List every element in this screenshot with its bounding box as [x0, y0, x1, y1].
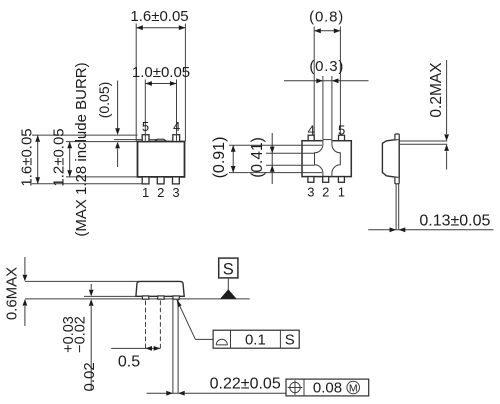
svg-text:0.5: 0.5 — [118, 353, 140, 370]
top view pin 3 — [173, 177, 180, 184]
svg-text:(0.91): (0.91) — [211, 137, 228, 179]
dimension 1.6±0.05 top width — [130, 8, 188, 141]
dimension 1.6±0.05 overall height — [19, 128, 41, 186]
bottom view pin labels 4 5 3 2 1 — [307, 123, 345, 200]
svg-text:(0.3): (0.3) — [309, 58, 344, 75]
svg-text:0.08: 0.08 — [313, 380, 342, 397]
bottom view pin 5 — [339, 135, 345, 141]
bottom view center pad — [315, 139, 341, 177]
svg-text:0.22±0.05: 0.22±0.05 — [210, 376, 281, 393]
bottom view pin 4 — [308, 135, 314, 141]
svg-text:1.6±0.05: 1.6±0.05 — [130, 8, 188, 25]
svg-text:(0.05): (0.05) — [96, 82, 112, 119]
svg-text:1.2±0.05: 1.2±0.05 — [51, 128, 68, 186]
front view package body — [136, 281, 184, 296]
top view pin 5 — [142, 135, 149, 142]
side view body — [382, 139, 399, 177]
dimension 0.5 lead pitch — [111, 346, 160, 370]
svg-text:1.6±0.05: 1.6±0.05 — [19, 128, 36, 186]
dimension 1.2±0.05 body height — [51, 128, 73, 186]
svg-text:M: M — [349, 382, 358, 394]
dimension (0.3) pad neck width — [284, 58, 369, 141]
note (MAX 1.28 include BURR) — [73, 62, 90, 236]
top view pin 1 — [142, 177, 149, 184]
dimension 0.13±0.05 lead thickness — [390, 212, 491, 232]
witness lines left of bottom view — [229, 145, 322, 172]
svg-text:(MAX 1.28 include BURR): (MAX 1.28 include BURR) — [73, 62, 90, 236]
top view package body — [138, 142, 185, 177]
side view seating line — [368, 229, 493, 231]
svg-text:1: 1 — [142, 185, 149, 200]
svg-text:2: 2 — [322, 184, 329, 199]
top view pin 2 — [157, 177, 164, 184]
bottom view pin 1 — [338, 177, 344, 183]
svg-text:S: S — [223, 260, 234, 278]
svg-text:(0.8): (0.8) — [309, 9, 344, 26]
svg-text:2: 2 — [157, 185, 164, 200]
bottom view pin 2 — [323, 177, 329, 183]
top view pin 4 — [173, 135, 180, 142]
witness lines left of top view — [32, 135, 157, 184]
svg-text:0.2MAX: 0.2MAX — [428, 62, 445, 118]
svg-text:4: 4 — [173, 119, 180, 134]
dimension (0.8) pad width — [309, 9, 344, 153]
svg-text:1: 1 — [338, 184, 345, 199]
front view pin 2 — [158, 296, 164, 299]
side view top lead end — [395, 134, 399, 139]
dimension 0.6MAX package height — [4, 257, 28, 326]
svg-text:3: 3 — [172, 185, 179, 200]
svg-text:1.0±0.05: 1.0±0.05 — [132, 64, 190, 81]
svg-text:0.6MAX: 0.6MAX — [4, 267, 21, 320]
svg-text:0.02: 0.02 — [81, 362, 98, 391]
seating plane line — [25, 298, 250, 300]
pin centerlines dashed — [146, 301, 161, 349]
feature control frame 0.08 M position — [286, 379, 369, 397]
bottom view pin 3 — [308, 177, 314, 183]
svg-text:(0.41): (0.41) — [249, 137, 266, 178]
leader to feature control frame — [177, 300, 213, 340]
feature control frame 0.1 S — [213, 330, 299, 348]
dimension (0.41) pad straight length — [249, 133, 275, 184]
dimension 0.02 +0.03 -0.02 stand-off — [61, 284, 98, 392]
dimension (0.91) pad length — [211, 137, 236, 179]
pin 3 width extension lines — [173, 300, 178, 393]
svg-text:0.13±0.05: 0.13±0.05 — [419, 212, 490, 229]
dimension 0.2MAX — [428, 60, 449, 170]
top view pin labels 5 4 1 2 3 — [142, 119, 180, 200]
svg-text:S: S — [285, 332, 295, 349]
svg-text:4: 4 — [308, 123, 315, 138]
svg-text:0.1: 0.1 — [245, 332, 266, 349]
svg-text:5: 5 — [338, 123, 345, 138]
witness line body bottom — [84, 295, 136, 297]
side view bottom lead end — [395, 178, 399, 184]
bottom view package body — [302, 141, 351, 177]
svg-text:3: 3 — [307, 184, 314, 199]
side view lead thickness lines — [396, 184, 399, 230]
front view pin 3 — [173, 296, 179, 299]
side view top lead seen edge-on — [399, 141, 447, 144]
top view index bump on body top edge — [155, 139, 166, 141]
datum S flag — [219, 258, 238, 299]
svg-text:−0.02: −0.02 — [73, 316, 89, 353]
front view witness line top — [25, 280, 140, 282]
front view pin 1 — [142, 296, 148, 299]
dimension 0.22±0.05 lead width — [147, 376, 286, 396]
dimension (0.05) lead protrusion — [96, 81, 120, 168]
extension lines through pins 5 and 4 — [145, 80, 176, 141]
dimension 1.0±0.05 lead span — [132, 64, 190, 86]
svg-text:5: 5 — [142, 119, 149, 134]
